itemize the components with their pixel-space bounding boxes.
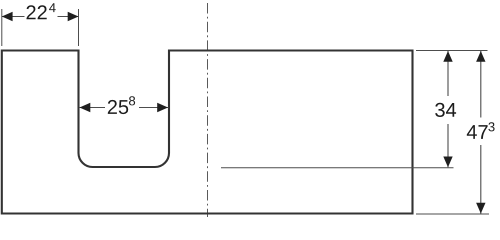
arrowhead right of 25.8	[157, 103, 168, 112]
label 22.4 white backing	[25, 2, 58, 22]
label 34 text	[435, 103, 456, 117]
arrowhead left of 22.4	[2, 12, 13, 21]
arrowhead top of 47.3	[476, 51, 485, 62]
dimension line 47.3	[480, 51, 482, 214]
label 34 white backing	[433, 96, 459, 124]
arrowhead top of 34	[443, 51, 452, 62]
arrowhead bottom of 47.3	[476, 203, 485, 214]
arrowhead bottom of 34	[443, 157, 452, 168]
dimension line 34	[447, 51, 449, 167]
label superscript 8 text	[129, 96, 135, 105]
label 25 text	[108, 100, 128, 114]
label 47 text	[467, 125, 488, 139]
label superscript 3 text	[488, 122, 494, 131]
label 47.3 white backing	[464, 118, 497, 146]
centerline (vertical dash-dot symmetry axis)	[207, 3, 209, 217]
top extension line (for 34 and 47.3)	[416, 50, 488, 52]
label superscript 4 text	[49, 3, 56, 12]
countertop outline with U-shaped notch cutout	[2, 51, 413, 214]
extension line left edge (for 22.4)	[1, 9, 3, 46]
bottom extension line (for 47.3)	[416, 213, 489, 215]
extension line notch left wall (for 22.4)	[78, 9, 80, 46]
dimension line 22.4	[2, 16, 79, 18]
label 25.8 white backing	[105, 93, 139, 117]
dimension line 25.8 (notch width)	[79, 107, 169, 109]
extension line at notch depth level (for 34)	[221, 167, 454, 169]
label 22 text	[27, 5, 47, 19]
arrowhead right of 22.4	[68, 12, 79, 21]
arrowhead left of 25.8	[80, 103, 91, 112]
